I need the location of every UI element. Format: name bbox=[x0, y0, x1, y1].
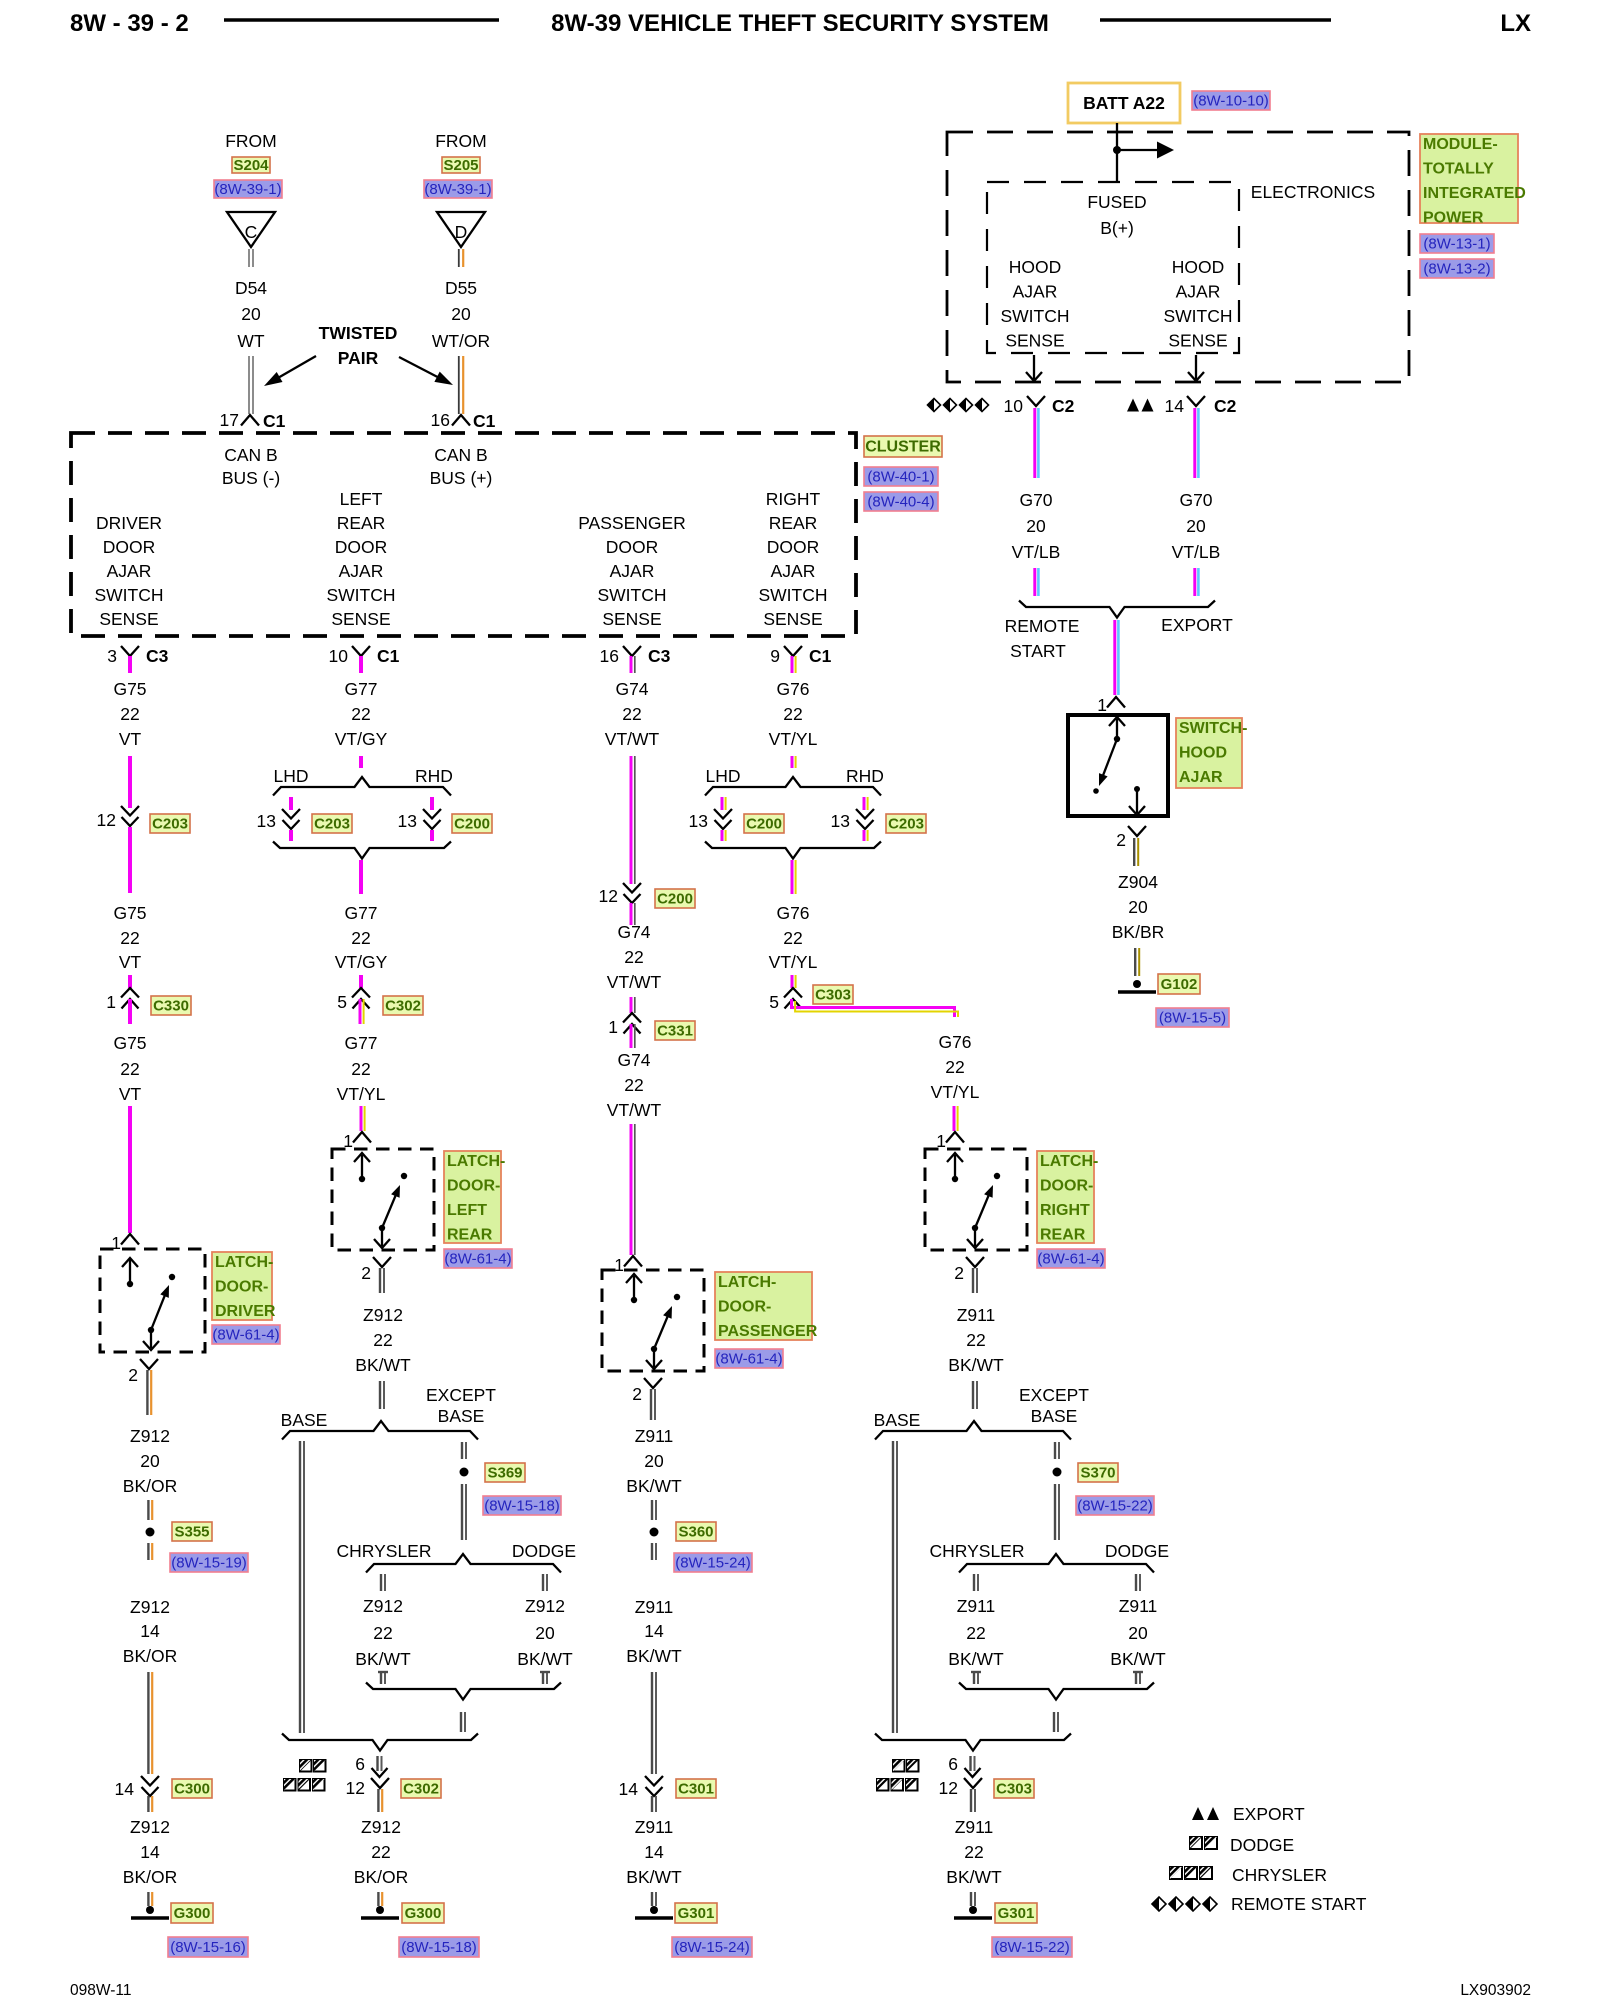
wire stub above splice S369 bbox=[461, 1442, 463, 1459]
hood switch fixed contact bbox=[1134, 786, 1140, 792]
svg-text:G75: G75 bbox=[113, 1033, 146, 1053]
svg-text:G102: G102 bbox=[1161, 976, 1198, 993]
in-line connector 1 C331 bbox=[623, 1013, 641, 1023]
pin 6 arrow (C303) bbox=[969, 1756, 971, 1771]
hood switch input arrow bbox=[1116, 719, 1118, 737]
in-line connector 13 C203 (right rear RHD) bbox=[856, 809, 874, 819]
wire stub above splice S370 bbox=[1054, 1442, 1056, 1459]
svg-text:VT/WT: VT/WT bbox=[605, 729, 660, 749]
svg-text:G74: G74 bbox=[617, 1050, 650, 1070]
wire stub above S360 bbox=[651, 1500, 653, 1520]
merge brace to C303 (Z911) bbox=[875, 1734, 1071, 1751]
svg-text:CHRYSLER: CHRYSLER bbox=[930, 1541, 1025, 1561]
svg-text:CHRYSLER: CHRYSLER bbox=[337, 1541, 432, 1561]
svg-text:2: 2 bbox=[954, 1263, 964, 1283]
svg-text:C2: C2 bbox=[1052, 396, 1075, 416]
svg-text:PASSENGER: PASSENGER bbox=[718, 1323, 818, 1340]
svg-text:REAR: REAR bbox=[447, 1227, 493, 1244]
svg-text:20: 20 bbox=[535, 1623, 555, 1643]
svg-text:C330: C330 bbox=[153, 998, 189, 1015]
svg-text:MODULE-: MODULE- bbox=[1423, 136, 1498, 153]
wire stub chrysler branch (Z911) bbox=[973, 1574, 975, 1591]
svg-text:(8W-15-16): (8W-15-16) bbox=[170, 1939, 246, 1956]
wire stub above C303 bbox=[791, 975, 794, 988]
svg-text:20: 20 bbox=[451, 304, 471, 324]
twisted pair arrow right bbox=[399, 357, 440, 378]
svg-text:VT/YL: VT/YL bbox=[769, 952, 818, 972]
driver latch moving contact bbox=[148, 1327, 154, 1333]
wire stub below C302 bbox=[359, 999, 362, 1024]
svg-text:LATCH-: LATCH- bbox=[718, 1274, 776, 1291]
wire Z904 BK/BR stub bbox=[1133, 838, 1135, 866]
connector pin 1 right rear latch bbox=[946, 1132, 964, 1143]
passenger latch moving contact bbox=[651, 1346, 657, 1352]
svg-text:Z912: Z912 bbox=[130, 1426, 170, 1446]
legend export triangles bbox=[1192, 1807, 1204, 1820]
splice S370 bbox=[1053, 1468, 1062, 1477]
svg-text:(8W-61-4): (8W-61-4) bbox=[1037, 1251, 1104, 1268]
connector pin 12 C303 bbox=[964, 1778, 982, 1788]
svg-text:C1: C1 bbox=[809, 646, 832, 666]
svg-text:Z911: Z911 bbox=[957, 1305, 996, 1325]
ground label G300 bbox=[171, 1903, 213, 1923]
svg-text:8W-39 VEHICLE THEFT SECURITY S: 8W-39 VEHICLE THEFT SECURITY SYSTEM bbox=[551, 10, 1049, 37]
wire stub below C331 bbox=[630, 1024, 633, 1048]
svg-text:BK/OR: BK/OR bbox=[123, 1476, 177, 1496]
wire G70 VT/LB right segment bbox=[1193, 408, 1196, 478]
ground label G300 (Z912) bbox=[402, 1903, 444, 1923]
wire Z912 BK/OR stub bbox=[146, 1370, 148, 1415]
wire stub chrysler lower (Z911) bbox=[971, 1671, 981, 1673]
connector pin 10 C2 bbox=[1027, 396, 1045, 406]
svg-text:DODGE: DODGE bbox=[1230, 1835, 1294, 1855]
svg-text:20: 20 bbox=[1026, 516, 1046, 536]
svg-text:TWISTED: TWISTED bbox=[319, 323, 398, 343]
left rear latch switch arm bbox=[382, 1193, 397, 1228]
svg-text:G76: G76 bbox=[776, 903, 809, 923]
svg-text:Z911: Z911 bbox=[957, 1596, 996, 1616]
svg-text:SWITCH: SWITCH bbox=[1000, 306, 1069, 326]
svg-text:098W-11: 098W-11 bbox=[70, 1982, 131, 1999]
svg-text:C200: C200 bbox=[454, 816, 490, 833]
svg-text:G74: G74 bbox=[617, 922, 650, 942]
svg-text:20: 20 bbox=[241, 304, 261, 324]
splice reference S205 bbox=[442, 157, 480, 174]
svg-text:BK/OR: BK/OR bbox=[354, 1867, 408, 1887]
svg-text:G301: G301 bbox=[678, 1905, 715, 1922]
wire Z911 BK/WT stub below right rear latch bbox=[972, 1268, 974, 1293]
wire BASE long branch (Z912) bbox=[299, 1441, 301, 1733]
svg-text:22: 22 bbox=[966, 1623, 985, 1643]
svg-text:G300: G300 bbox=[405, 1905, 442, 1922]
merge brace left rear bbox=[273, 842, 451, 859]
driver latch switch arm bbox=[151, 1293, 166, 1330]
svg-text:(8W-39-1): (8W-39-1) bbox=[424, 181, 491, 198]
connector pin 9 C1 below cluster bbox=[784, 646, 802, 656]
svg-text:WT/OR: WT/OR bbox=[432, 331, 490, 351]
connector label C200 (right rear LHD) bbox=[744, 814, 784, 833]
wire stub above S355 bbox=[147, 1500, 149, 1520]
wire WT down to C1 bbox=[248, 356, 250, 414]
wire stub above G300 bbox=[147, 1892, 149, 1906]
wire stub below triangle C bbox=[248, 249, 250, 267]
svg-text:REAR: REAR bbox=[1040, 1227, 1086, 1244]
switch-hood-ajar solid box bbox=[1068, 715, 1168, 816]
module TIPM inner dashed box bbox=[987, 182, 1239, 353]
svg-text:LATCH-: LATCH- bbox=[447, 1153, 505, 1170]
svg-text:14: 14 bbox=[644, 1842, 664, 1862]
page reference (8W-15-22) (Z911) bbox=[992, 1937, 1072, 1957]
remote start marker diamonds at C2 bbox=[928, 399, 941, 412]
in-line connector 13 C200 (right rear LHD) bbox=[714, 809, 732, 819]
svg-text:C203: C203 bbox=[314, 816, 350, 833]
svg-text:2: 2 bbox=[632, 1384, 642, 1404]
svg-text:Z912: Z912 bbox=[363, 1596, 403, 1616]
off-page triangle C bbox=[227, 212, 275, 247]
svg-text:C2: C2 bbox=[1214, 396, 1237, 416]
passenger latch switch arm bbox=[654, 1314, 669, 1349]
wire Z912 BK/OR long segment bbox=[147, 1672, 149, 1774]
wire stub above BASE split (right rear) bbox=[972, 1381, 974, 1409]
driver latch input arrow bbox=[129, 1259, 131, 1282]
label LATCH-DOOR-PASSENGER bbox=[715, 1272, 818, 1340]
ground G300 (Z912) bbox=[376, 1906, 384, 1914]
svg-text:(8W-15-18): (8W-15-18) bbox=[401, 1939, 477, 1956]
right rear latch output arrow bbox=[974, 1230, 976, 1246]
svg-text:D: D bbox=[455, 222, 468, 242]
wire stub above G300 (Z912) bbox=[377, 1892, 379, 1906]
svg-text:PASSENGER: PASSENGER bbox=[578, 513, 686, 533]
svg-text:VT/YL: VT/YL bbox=[931, 1082, 980, 1102]
svg-text:22: 22 bbox=[622, 704, 641, 724]
svg-text:22: 22 bbox=[351, 928, 370, 948]
svg-text:(8W-61-4): (8W-61-4) bbox=[444, 1251, 511, 1268]
svg-text:Z912: Z912 bbox=[130, 1597, 170, 1617]
page reference (8W-15-5) bbox=[1156, 1008, 1229, 1027]
wire stub G75 bbox=[128, 656, 132, 673]
wire Z911 BK/WT stub below passenger latch bbox=[650, 1389, 652, 1420]
svg-text:22: 22 bbox=[624, 947, 643, 967]
svg-text:(8W-15-19): (8W-15-19) bbox=[171, 1555, 247, 1572]
wire G76 VT/YL jog right bbox=[792, 999, 955, 1017]
svg-text:VT/GY: VT/GY bbox=[335, 952, 388, 972]
svg-text:BUS (-): BUS (-) bbox=[222, 468, 280, 488]
connector pin 1 passenger latch bbox=[624, 1256, 642, 1267]
svg-text:DOOR-: DOOR- bbox=[215, 1279, 268, 1296]
page reference (8W-15-24) bbox=[674, 1553, 752, 1572]
connector label C203 (LHD) bbox=[312, 814, 352, 833]
passenger latch fixed contact bbox=[674, 1294, 680, 1300]
in-line connector 5 C302 bbox=[352, 988, 370, 998]
svg-text:VT: VT bbox=[119, 1084, 142, 1104]
connector label C330 bbox=[151, 996, 191, 1015]
page reference (8W-15-18) bbox=[483, 1496, 561, 1515]
wire stub above C331 bbox=[630, 997, 633, 1013]
svg-text:C331: C331 bbox=[657, 1023, 693, 1040]
svg-text:S205: S205 bbox=[443, 157, 478, 174]
svg-text:13: 13 bbox=[689, 811, 708, 831]
wire BASE long branch (Z911) bbox=[892, 1441, 894, 1733]
svg-text:12: 12 bbox=[346, 1778, 365, 1798]
svg-text:LEFT: LEFT bbox=[340, 489, 383, 509]
svg-text:Z911: Z911 bbox=[635, 1426, 674, 1446]
svg-text:BK/WT: BK/WT bbox=[626, 1476, 682, 1496]
svg-text:BK/OR: BK/OR bbox=[123, 1646, 177, 1666]
module TIPM outer dashed box bbox=[947, 132, 1409, 382]
connector pin 12 C302 bbox=[371, 1778, 389, 1788]
svg-text:ELECTRONICS: ELECTRONICS bbox=[1251, 182, 1375, 202]
svg-text:C1: C1 bbox=[377, 646, 400, 666]
svg-text:POWER: POWER bbox=[1423, 210, 1484, 227]
svg-text:INTEGRATED: INTEGRATED bbox=[1423, 185, 1526, 202]
switch latch-door-right-rear dashed box bbox=[925, 1149, 1027, 1250]
svg-text:BASE: BASE bbox=[438, 1406, 485, 1426]
svg-text:(8W-15-22): (8W-15-22) bbox=[994, 1939, 1070, 1956]
pin 6 arrow (C302) bbox=[376, 1756, 378, 1771]
page reference (8W-39-1) for S204 bbox=[214, 180, 282, 198]
wire stub below C301 bbox=[651, 1796, 653, 1812]
svg-text:14: 14 bbox=[1165, 396, 1185, 416]
connector pin 1 left rear latch bbox=[353, 1132, 371, 1143]
svg-text:14: 14 bbox=[619, 1779, 639, 1799]
switch latch-door-passenger dashed box bbox=[602, 1270, 704, 1371]
svg-text:SENSE: SENSE bbox=[602, 609, 661, 629]
page reference (8W-61-4) right rear latch bbox=[1037, 1249, 1105, 1268]
split brace CHRYSLER/DODGE (Z911) bbox=[959, 1554, 1154, 1573]
svg-text:G77: G77 bbox=[344, 679, 377, 699]
svg-text:DOOR-: DOOR- bbox=[447, 1178, 500, 1195]
svg-text:G70: G70 bbox=[1019, 490, 1052, 510]
page reference (8W-39-1) for S205 bbox=[424, 180, 492, 198]
svg-text:DRIVER: DRIVER bbox=[215, 1303, 276, 1320]
svg-text:BASE: BASE bbox=[874, 1410, 921, 1430]
wire stub G74 bbox=[630, 656, 633, 673]
wire Z911 BK/WT long segment bbox=[651, 1672, 653, 1774]
svg-text:VT/YL: VT/YL bbox=[769, 729, 818, 749]
in-line connector 5 C303 bbox=[784, 988, 802, 998]
svg-text:AJAR: AJAR bbox=[1179, 769, 1223, 786]
svg-text:C1: C1 bbox=[473, 411, 496, 431]
split brace CHRYSLER/DODGE (Z912) bbox=[366, 1554, 561, 1573]
svg-text:DODGE: DODGE bbox=[512, 1541, 576, 1561]
svg-text:(8W-15-5): (8W-15-5) bbox=[1159, 1010, 1226, 1027]
svg-text:BK/OR: BK/OR bbox=[123, 1867, 177, 1887]
right rear latch moving contact bbox=[972, 1225, 978, 1231]
wire stub below splice S369 bbox=[461, 1484, 463, 1540]
svg-text:Z911: Z911 bbox=[955, 1817, 994, 1837]
switch latch-door-left-rear dashed box bbox=[332, 1149, 434, 1250]
svg-text:SENSE: SENSE bbox=[331, 609, 390, 629]
svg-text:C301: C301 bbox=[678, 1781, 714, 1798]
svg-text:RIGHT: RIGHT bbox=[1040, 1202, 1090, 1219]
splice label S369 bbox=[485, 1463, 525, 1482]
svg-text:EXCEPT: EXCEPT bbox=[426, 1385, 496, 1405]
svg-text:(8W-61-4): (8W-61-4) bbox=[212, 1327, 279, 1344]
splice label S355 bbox=[172, 1522, 212, 1541]
svg-text:Z912: Z912 bbox=[361, 1817, 401, 1837]
wire stub below C300 bbox=[147, 1796, 149, 1812]
svg-text:LHD: LHD bbox=[705, 766, 740, 786]
svg-text:2: 2 bbox=[361, 1263, 371, 1283]
svg-text:TOTALLY: TOTALLY bbox=[1423, 161, 1494, 178]
wire stub RHD branch (right rear) bbox=[863, 797, 866, 810]
svg-text:22: 22 bbox=[351, 704, 370, 724]
header rule left bbox=[224, 18, 499, 22]
wire stub dodge branch (Z912) bbox=[542, 1574, 544, 1591]
svg-text:C302: C302 bbox=[385, 998, 421, 1015]
svg-text:LHD: LHD bbox=[273, 766, 308, 786]
svg-text:VT/LB: VT/LB bbox=[1012, 542, 1061, 562]
wire Z912 BK/WT stub below latch bbox=[379, 1268, 381, 1293]
svg-text:VT: VT bbox=[119, 952, 142, 972]
svg-text:22: 22 bbox=[966, 1330, 985, 1350]
connector pin 2 hood ajar switch bbox=[1128, 826, 1146, 836]
svg-text:3: 3 bbox=[107, 646, 117, 666]
svg-text:5: 5 bbox=[769, 992, 779, 1012]
svg-text:20: 20 bbox=[1128, 897, 1148, 917]
svg-text:D54: D54 bbox=[235, 278, 267, 298]
svg-text:14: 14 bbox=[644, 1621, 664, 1641]
page reference (8W-40-1) bbox=[864, 467, 938, 486]
connector label C331 bbox=[655, 1021, 695, 1040]
left rear latch output arrow bbox=[381, 1230, 383, 1246]
svg-text:G76: G76 bbox=[776, 679, 809, 699]
svg-text:SWITCH: SWITCH bbox=[326, 585, 395, 605]
svg-text:(8W-13-2): (8W-13-2) bbox=[1423, 261, 1490, 278]
in-line connector 12 C200 (passenger) bbox=[623, 883, 641, 893]
connector pin 3 C3 below cluster bbox=[121, 646, 139, 656]
wire stub above C330 bbox=[128, 975, 132, 988]
svg-text:(8W-10-10): (8W-10-10) bbox=[1193, 93, 1269, 110]
wire Z904 lower stub bbox=[1134, 948, 1136, 976]
wire stub chrysler lower (Z912) bbox=[378, 1671, 388, 1673]
page reference (8W-15-22) bbox=[1076, 1496, 1154, 1515]
svg-text:(8W-15-18): (8W-15-18) bbox=[484, 1498, 560, 1515]
wire G74 VT/WT to passenger latch bbox=[630, 1124, 633, 1255]
svg-text:FROM: FROM bbox=[225, 131, 277, 151]
svg-text:SWITCH: SWITCH bbox=[758, 585, 827, 605]
svg-text:16: 16 bbox=[431, 410, 450, 430]
svg-text:13: 13 bbox=[398, 811, 417, 831]
wire WT/OR down to C1 bbox=[458, 356, 460, 414]
page reference (8W-15-24) ground bbox=[672, 1937, 752, 1957]
svg-text:22: 22 bbox=[120, 928, 139, 948]
svg-text:C200: C200 bbox=[657, 891, 693, 908]
wire stub above BASE split bbox=[379, 1381, 381, 1409]
svg-text:VT/LB: VT/LB bbox=[1172, 542, 1221, 562]
passenger latch output arrow bbox=[653, 1351, 655, 1367]
svg-text:BK/WT: BK/WT bbox=[355, 1649, 411, 1669]
wire stub dodge lower (Z912) bbox=[540, 1671, 550, 1673]
right rear latch switch arm bbox=[975, 1193, 990, 1228]
svg-text:PAIR: PAIR bbox=[338, 348, 379, 368]
svg-text:S204: S204 bbox=[233, 157, 269, 174]
svg-text:(8W-39-1): (8W-39-1) bbox=[214, 181, 281, 198]
svg-text:DODGE: DODGE bbox=[1105, 1541, 1169, 1561]
svg-text:G300: G300 bbox=[174, 1905, 211, 1922]
svg-text:Z912: Z912 bbox=[130, 1817, 170, 1837]
svg-text:2: 2 bbox=[128, 1365, 138, 1385]
wire stub below C203 (right rear RHD) bbox=[863, 830, 866, 841]
svg-text:EXCEPT: EXCEPT bbox=[1019, 1385, 1089, 1405]
svg-text:SWITCH: SWITCH bbox=[94, 585, 163, 605]
wire stub below CHRYSLER/DODGE merge (Z912) bbox=[460, 1712, 462, 1732]
svg-text:1: 1 bbox=[106, 992, 116, 1012]
svg-text:HOOD: HOOD bbox=[1179, 745, 1227, 762]
page reference (8W-61-4) driver latch bbox=[212, 1325, 280, 1344]
svg-text:6: 6 bbox=[948, 1754, 958, 1774]
svg-text:C203: C203 bbox=[152, 816, 188, 833]
svg-text:B(+): B(+) bbox=[1100, 218, 1134, 238]
header rule right bbox=[1100, 18, 1331, 22]
svg-text:DOOR-: DOOR- bbox=[1040, 1178, 1093, 1195]
page reference (8W-13-2) bbox=[1420, 259, 1494, 278]
svg-text:AJAR: AJAR bbox=[1013, 282, 1058, 302]
svg-text:EXPORT: EXPORT bbox=[1161, 615, 1233, 635]
svg-text:S369: S369 bbox=[487, 1465, 522, 1482]
in-line connector 13 C200 (RHD) bbox=[423, 809, 441, 819]
connector pin 2 left rear latch bbox=[373, 1257, 391, 1267]
svg-text:6: 6 bbox=[355, 1754, 365, 1774]
ground label G301 bbox=[675, 1903, 717, 1923]
svg-text:REMOTE START: REMOTE START bbox=[1231, 1894, 1367, 1914]
svg-text:SENSE: SENSE bbox=[1005, 331, 1064, 351]
wire stub below S355 bbox=[147, 1543, 149, 1560]
split brace LHD/RHD left rear bbox=[273, 777, 451, 796]
junction node B+ bbox=[1113, 146, 1121, 154]
svg-text:Z911: Z911 bbox=[1119, 1596, 1158, 1616]
connector pin 1 hood ajar switch bbox=[1107, 697, 1125, 708]
wire stub G76 bbox=[791, 656, 794, 673]
wire G77 VT/YL to left rear latch bbox=[360, 1106, 363, 1131]
page reference (8W-15-18) (Z912) bbox=[399, 1937, 479, 1957]
svg-text:1: 1 bbox=[608, 1017, 618, 1037]
svg-text:BK/WT: BK/WT bbox=[355, 1355, 411, 1375]
wire G70 VT/LB left segment bbox=[1033, 408, 1036, 478]
svg-text:S370: S370 bbox=[1080, 1465, 1115, 1482]
svg-text:(8W-15-22): (8W-15-22) bbox=[1077, 1498, 1153, 1515]
svg-text:C3: C3 bbox=[648, 646, 671, 666]
connector label C302 bbox=[401, 1779, 441, 1798]
svg-text:SWITCH: SWITCH bbox=[597, 585, 666, 605]
wire stub below C200 (RHD) bbox=[430, 830, 434, 841]
svg-text:5: 5 bbox=[337, 992, 347, 1012]
svg-text:(8W-40-1): (8W-40-1) bbox=[867, 469, 934, 486]
svg-text:G301: G301 bbox=[998, 1905, 1035, 1922]
svg-text:CHRYSLER: CHRYSLER bbox=[1232, 1865, 1327, 1885]
svg-text:AJAR: AJAR bbox=[339, 561, 384, 581]
svg-text:(8W-13-1): (8W-13-1) bbox=[1423, 236, 1490, 253]
svg-text:AJAR: AJAR bbox=[107, 561, 152, 581]
svg-text:RHD: RHD bbox=[415, 766, 453, 786]
svg-text:LX903902: LX903902 bbox=[1460, 1982, 1531, 1999]
svg-text:C302: C302 bbox=[403, 1781, 439, 1798]
connector pin 17 C1 bbox=[241, 415, 259, 426]
fuse feed box BATT A22 bbox=[1068, 83, 1180, 123]
svg-text:1: 1 bbox=[614, 1255, 624, 1275]
cluster module dashed box bbox=[71, 433, 856, 636]
left rear latch fixed contact bbox=[401, 1173, 407, 1179]
svg-text:G77: G77 bbox=[344, 1033, 377, 1053]
page reference (8W-15-16) bbox=[168, 1937, 248, 1957]
svg-text:S360: S360 bbox=[678, 1524, 713, 1541]
connector pin 14 C2 bbox=[1187, 396, 1205, 406]
svg-text:(8W-15-24): (8W-15-24) bbox=[675, 1555, 751, 1572]
svg-text:G75: G75 bbox=[113, 903, 146, 923]
svg-text:Z912: Z912 bbox=[525, 1596, 565, 1616]
wire stub G76 above split bbox=[791, 756, 794, 768]
svg-text:2: 2 bbox=[1116, 830, 1126, 850]
